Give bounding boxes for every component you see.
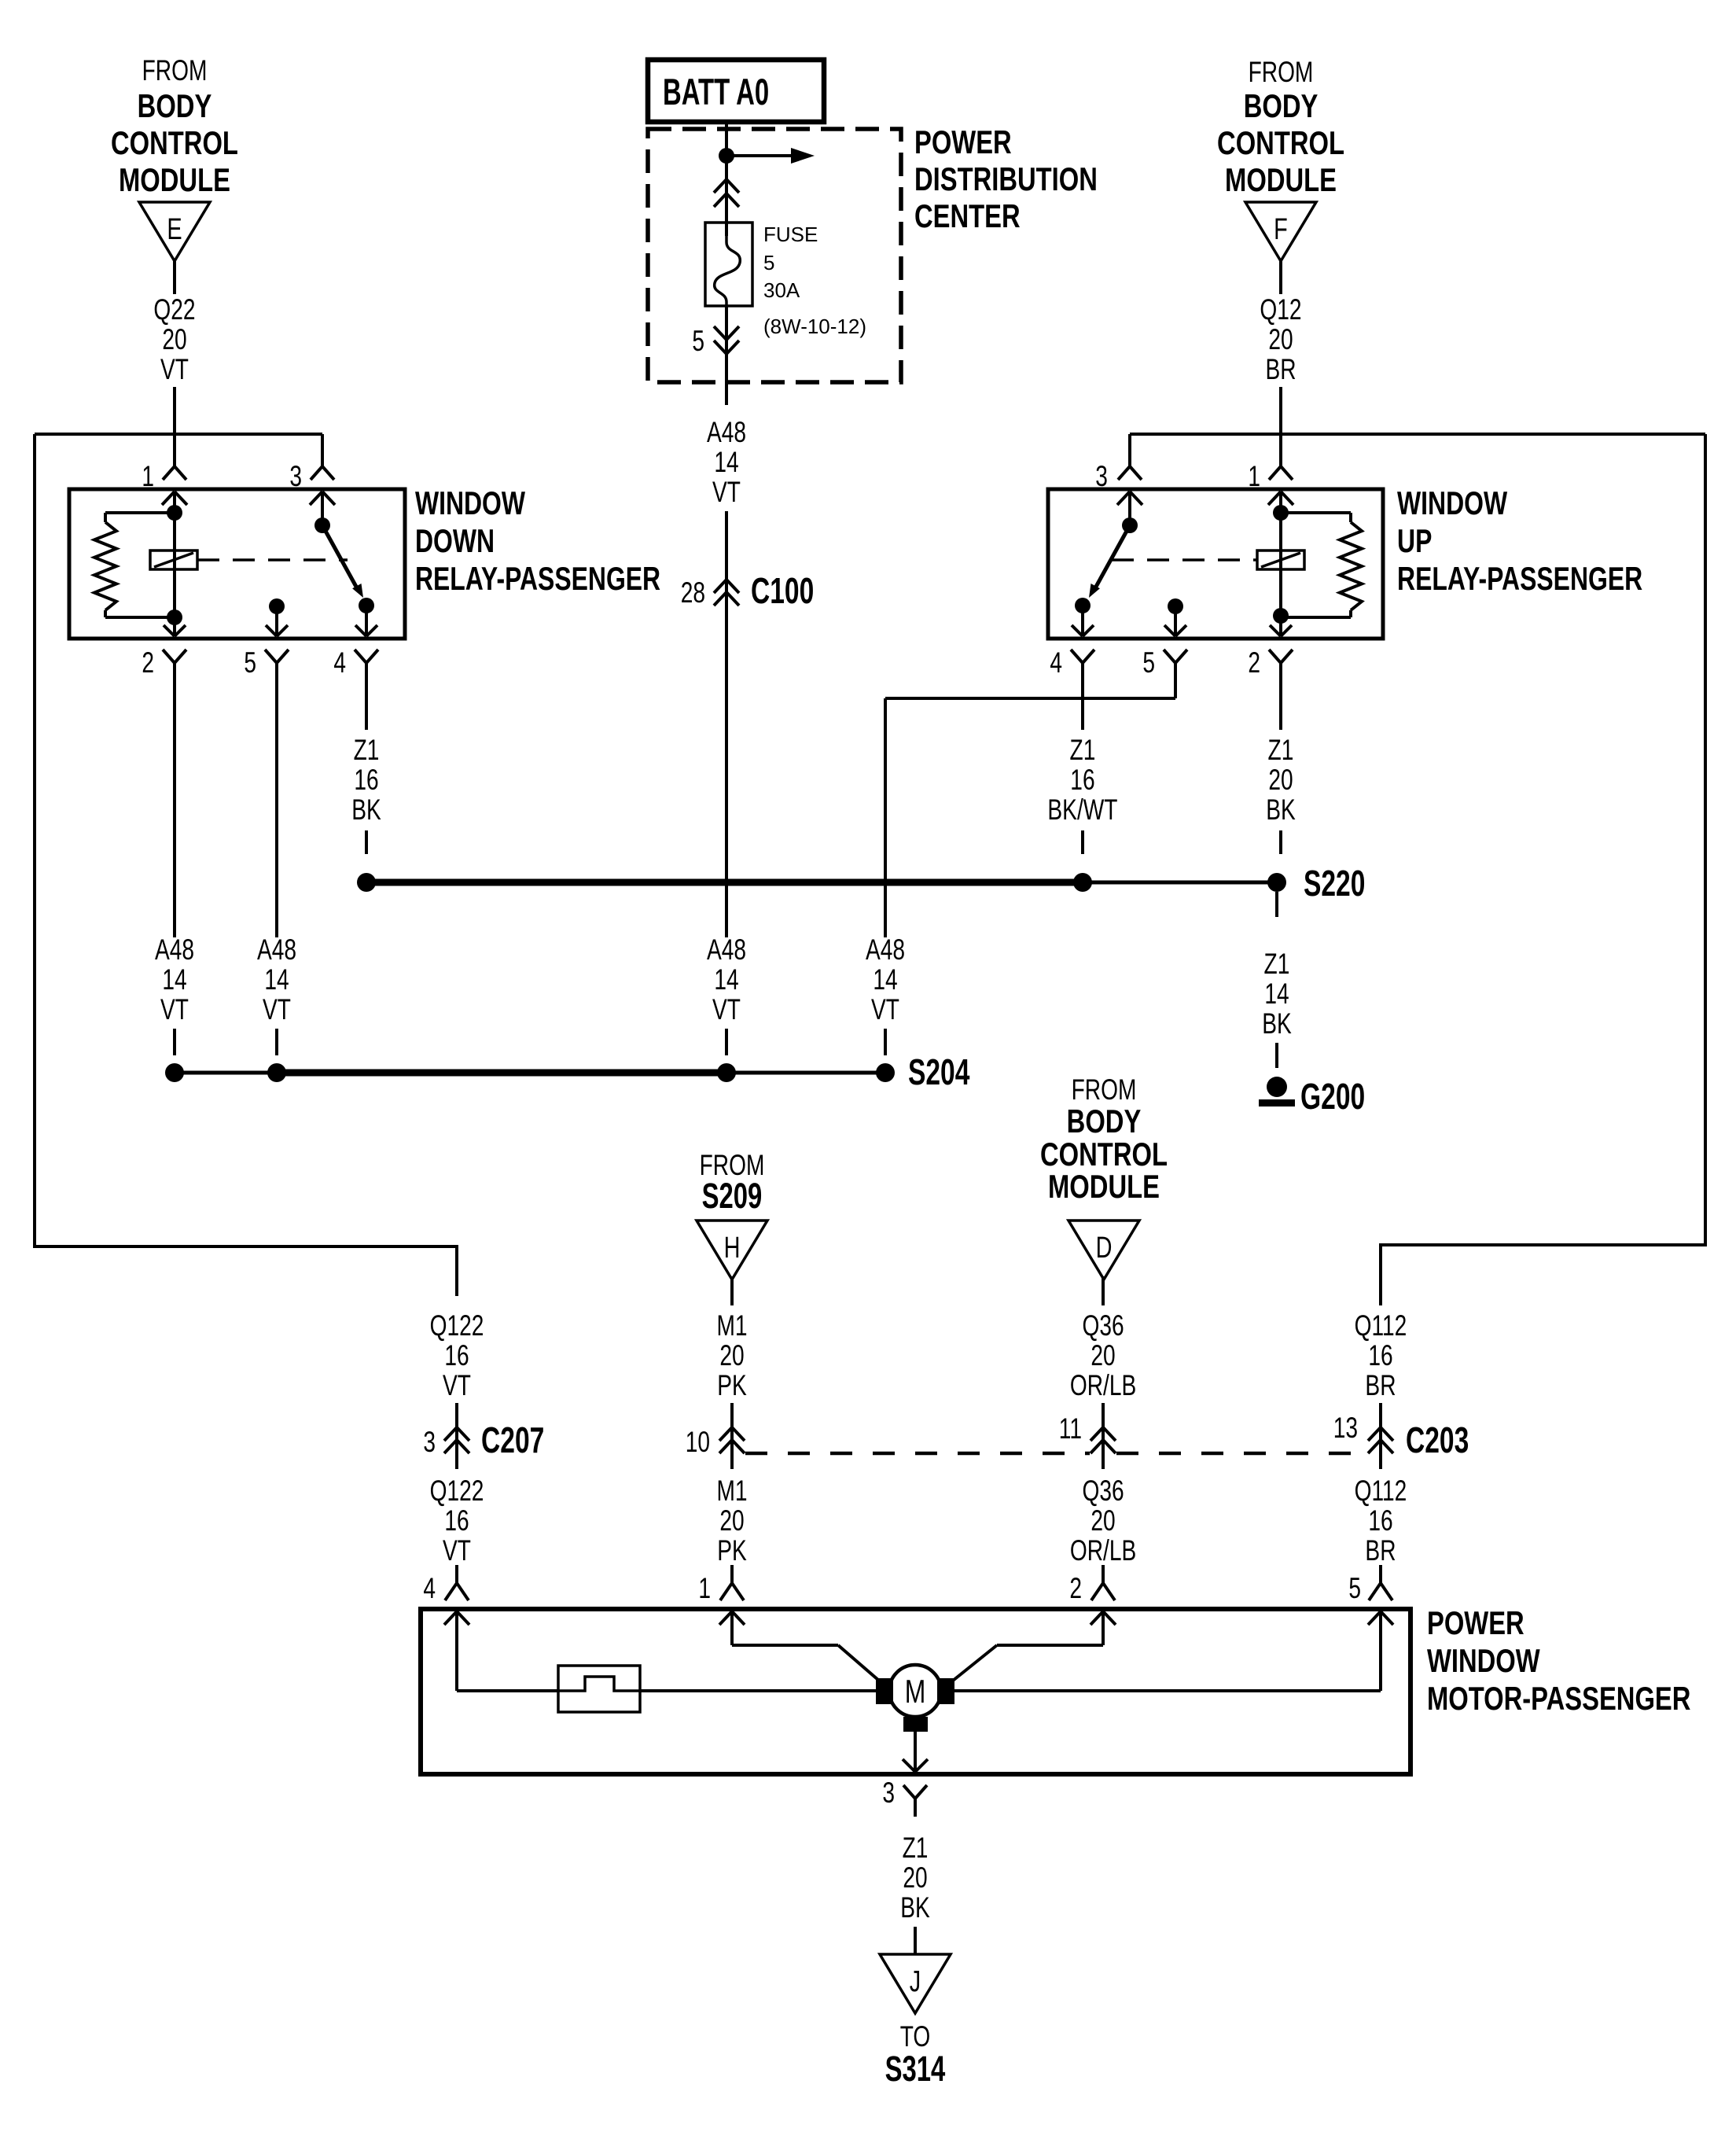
svg-text:BR: BR: [1365, 1534, 1396, 1567]
svg-text:5: 5: [1348, 1571, 1361, 1604]
wire A48 14 VT from relay K1 pin 5 to S204: [257, 681, 296, 1055]
svg-text:BK: BK: [900, 1891, 930, 1924]
connector chevrons above fuse: [714, 156, 739, 236]
svg-text:28: 28: [681, 576, 705, 609]
svg-text:Z1: Z1: [354, 733, 380, 766]
wire Q122 16 VT from C207 to motor pin 4: [430, 1460, 484, 1567]
power distribution center dashed box: [648, 123, 1098, 382]
fuse 5 30A: [705, 223, 866, 338]
svg-text:14: 14: [264, 963, 289, 996]
svg-text:Q112: Q112: [1355, 1309, 1407, 1342]
svg-text:BK: BK: [351, 793, 381, 826]
svg-text:BK: BK: [1266, 793, 1296, 826]
connector triangle H from S209: [697, 1148, 767, 1280]
connector triangle J to S314: [880, 1954, 951, 2089]
wire Z1 20 BK from motor to J: [900, 1831, 930, 1954]
svg-text:S314: S314: [885, 2049, 946, 2089]
node pin 2 window-down relay: [142, 646, 186, 681]
wire A48 14 VT from relay K2 pin 5 to S204: [866, 681, 1175, 1055]
svg-text:14: 14: [714, 445, 738, 478]
svg-text:16: 16: [1070, 763, 1094, 796]
connector C203 pin 13: [1333, 1411, 1469, 1468]
svg-text:A48: A48: [866, 933, 905, 966]
wire rail above window-up relay: [1130, 433, 1705, 436]
relay K2 pin 4 internal: [1081, 606, 1084, 636]
wire Z1 16 BK/WT from relay K2 pin 4 to S220: [1047, 681, 1117, 854]
relay K1 pin 5 internal: [266, 598, 288, 636]
connector C207 pin 3: [423, 1420, 544, 1468]
svg-text:5: 5: [1142, 646, 1155, 679]
svg-text:OR/LB: OR/LB: [1070, 1534, 1136, 1567]
PDC output pin 5 chevrons: [692, 306, 739, 362]
dashed actuation link relay K1: [197, 558, 348, 562]
svg-text:VT: VT: [160, 352, 189, 385]
svg-text:Z1: Z1: [1070, 733, 1096, 766]
svg-text:D: D: [1096, 1231, 1113, 1265]
svg-text:A48: A48: [155, 933, 194, 966]
svg-text:TO: TO: [900, 2020, 931, 2053]
svg-text:PK: PK: [717, 1534, 747, 1567]
splice S220 bus: [357, 863, 1365, 904]
svg-text:POWER: POWER: [1427, 1604, 1525, 1641]
svg-text:4: 4: [333, 646, 346, 679]
splice S204 bus: [165, 1052, 970, 1092]
svg-text:13: 13: [1333, 1411, 1358, 1444]
svg-text:BODY: BODY: [138, 87, 212, 124]
svg-text:30A: 30A: [763, 278, 800, 302]
node pin 5 motor: [1348, 1565, 1392, 1604]
arrow tap to other circuits: [726, 148, 815, 164]
svg-text:CONTROL: CONTROL: [1217, 124, 1344, 161]
svg-text:POWER: POWER: [914, 123, 1012, 160]
svg-text:S220: S220: [1304, 863, 1365, 904]
node pin 3 window-down relay: [289, 434, 334, 492]
node pin 1 motor: [698, 1565, 744, 1604]
svg-text:OR/LB: OR/LB: [1070, 1368, 1136, 1401]
svg-text:BR: BR: [1365, 1368, 1396, 1401]
svg-text:14: 14: [162, 963, 186, 996]
wire Q112 16 BR into C203: [1355, 1309, 1407, 1426]
svg-text:Q36: Q36: [1082, 1309, 1124, 1342]
wire Q22 20 VT from E to relay pin 1: [153, 261, 195, 434]
relay K2 WINDOW UP RELAY-PASSENGER box: [1048, 484, 1642, 639]
junction node in PDC: [719, 148, 734, 164]
battery feed BATT A0 box: [648, 60, 824, 122]
connector triangle D from Body Control Module: [1040, 1073, 1168, 1280]
svg-text:Q22: Q22: [153, 293, 195, 326]
svg-text:WINDOW: WINDOW: [1427, 1642, 1540, 1679]
svg-text:5: 5: [763, 251, 774, 274]
svg-text:C203: C203: [1406, 1420, 1469, 1460]
wire M1 20 PK from pin 10 to motor pin 1: [716, 1460, 747, 1567]
svg-text:20: 20: [1268, 322, 1293, 355]
switch contact relay K1 pin3 to pin4: [310, 492, 374, 613]
wire A48 14 VT from relay K1 pin 2 to S204: [155, 681, 194, 1055]
svg-text:5: 5: [244, 646, 256, 679]
svg-text:16: 16: [444, 1504, 469, 1537]
wire Q12 20 BR from F to relay pin 1: [1260, 261, 1301, 434]
wire long left feed down to C207: [35, 434, 457, 1296]
svg-text:RELAY-PASSENGER: RELAY-PASSENGER: [415, 560, 660, 597]
svg-text:20: 20: [903, 1861, 927, 1894]
svg-text:H: H: [724, 1231, 741, 1265]
svg-text:20: 20: [1091, 1504, 1115, 1537]
svg-text:WINDOW: WINDOW: [1397, 484, 1508, 521]
svg-text:BODY: BODY: [1244, 87, 1319, 124]
resistor inside relay K2: [1281, 513, 1362, 617]
svg-text:WINDOW: WINDOW: [415, 484, 526, 521]
relay K2 pin 5 internal: [1164, 598, 1186, 636]
svg-text:MODULE: MODULE: [1225, 161, 1337, 198]
node pin 1 window-up relay: [1248, 434, 1293, 492]
svg-text:VT: VT: [160, 992, 189, 1025]
wire A48 14 VT from PDC to C100: [707, 354, 746, 580]
relay K1 WINDOW DOWN RELAY-PASSENGER box: [69, 484, 660, 639]
svg-text:5: 5: [692, 324, 704, 357]
svg-text:2: 2: [1069, 1571, 1082, 1604]
svg-text:DISTRIBUTION: DISTRIBUTION: [914, 160, 1098, 197]
coil of relay K2: [1257, 550, 1304, 569]
node pin 3 motor: [882, 1776, 927, 1817]
wire Z1 20 BK from relay K2 pin 2 to S220: [1266, 681, 1296, 854]
svg-text:16: 16: [444, 1338, 469, 1372]
wire A48 14 VT from C100 to S204: [707, 613, 746, 1055]
svg-text:16: 16: [1368, 1338, 1392, 1372]
motor ground exit pin 3: [903, 1732, 928, 1772]
node pin 5 window-up relay: [1142, 646, 1187, 681]
connector pin 10 in-line: [686, 1425, 745, 1468]
relay K1 pin 2 internal: [173, 617, 176, 636]
svg-text:MODULE: MODULE: [1048, 1168, 1160, 1205]
svg-text:A48: A48: [707, 933, 746, 966]
svg-text:3: 3: [423, 1425, 436, 1458]
node pin 4 window-up relay: [1050, 646, 1094, 681]
svg-text:Q36: Q36: [1082, 1474, 1124, 1507]
svg-text:Z1: Z1: [903, 1831, 929, 1864]
svg-text:VT: VT: [443, 1534, 471, 1567]
svg-text:Q122: Q122: [430, 1474, 484, 1507]
connector triangle E from Body Control Module: [111, 53, 238, 261]
svg-text:CONTROL: CONTROL: [111, 124, 238, 161]
svg-text:S204: S204: [908, 1052, 970, 1092]
node pin 3 window-up relay: [1095, 434, 1142, 492]
svg-text:20: 20: [719, 1504, 744, 1537]
svg-text:RELAY-PASSENGER: RELAY-PASSENGER: [1397, 560, 1642, 597]
svg-text:BODY: BODY: [1067, 1103, 1142, 1140]
wire Q122 16 VT into C207: [430, 1309, 484, 1426]
svg-text:4: 4: [423, 1571, 436, 1604]
node pin 4 window-down relay: [333, 646, 378, 681]
svg-text:DOWN: DOWN: [415, 522, 495, 559]
svg-text:UP: UP: [1397, 522, 1432, 559]
circuit breaker inside motor: [558, 1666, 876, 1712]
svg-text:J: J: [910, 1964, 921, 1998]
svg-text:20: 20: [1268, 763, 1293, 796]
node pin 2 window-up relay: [1248, 646, 1293, 681]
svg-text:S209: S209: [702, 1176, 763, 1216]
svg-text:20: 20: [1091, 1338, 1115, 1372]
svg-text:FROM: FROM: [1249, 55, 1314, 88]
svg-text:14: 14: [1264, 977, 1289, 1010]
svg-text:BK/WT: BK/WT: [1047, 793, 1117, 826]
wire M1 20 PK from H to C207 row: [716, 1276, 747, 1426]
svg-text:F: F: [1274, 212, 1288, 246]
motor internal wire from pin 5: [954, 1611, 1393, 1691]
connector C100 pin 28: [681, 571, 815, 620]
svg-text:VT: VT: [712, 475, 741, 508]
motor internal wire from pin 1: [719, 1611, 879, 1681]
relay K1 pin 4 internal: [365, 606, 368, 636]
svg-text:MODULE: MODULE: [119, 161, 230, 198]
wire from BATT A0 into PDC: [725, 122, 728, 156]
svg-text:FROM: FROM: [142, 53, 208, 87]
connector triangle F from Body Control Module: [1217, 55, 1344, 261]
svg-text:14: 14: [714, 963, 738, 996]
wire Z1 14 BK from S220 to G200: [1262, 892, 1292, 1068]
wire long right feed down to C203: [1381, 434, 1705, 1305]
svg-text:M: M: [905, 1673, 926, 1710]
relay K2 coil branch pin1-pin2: [1268, 492, 1293, 624]
svg-text:Q12: Q12: [1260, 293, 1301, 326]
relay K2 pin 2 internal: [1279, 616, 1282, 636]
svg-text:E: E: [167, 212, 182, 246]
relay K1 coil branch pin1-pin2: [162, 492, 187, 625]
svg-text:VT: VT: [712, 992, 741, 1025]
svg-text:14: 14: [873, 963, 897, 996]
svg-text:VT: VT: [871, 992, 899, 1025]
motor M armature: [876, 1665, 954, 1732]
svg-text:11: 11: [1059, 1412, 1082, 1445]
svg-text:G200: G200: [1300, 1077, 1365, 1117]
resistor inside relay K1: [94, 513, 175, 617]
svg-text:Z1: Z1: [1268, 733, 1294, 766]
svg-text:Z1: Z1: [1264, 947, 1290, 980]
svg-text:3: 3: [882, 1776, 895, 1809]
svg-text:4: 4: [1050, 646, 1062, 679]
svg-text:FUSE: FUSE: [763, 223, 818, 246]
switch contact relay K2 pin3 to pin4: [1075, 492, 1142, 613]
wire Z1 16 BK from relay K1 pin 4 to S220: [351, 681, 381, 854]
connector pin 11 in-line: [1059, 1412, 1116, 1468]
svg-text:2: 2: [142, 646, 154, 679]
node pin 2 motor: [1069, 1565, 1115, 1604]
dashed in-line connector row 11-13: [1116, 1452, 1367, 1456]
svg-text:MOTOR-PASSENGER: MOTOR-PASSENGER: [1427, 1680, 1690, 1717]
svg-text:BATT A0: BATT A0: [663, 71, 769, 112]
dashed in-line connector row 10-11: [745, 1452, 1090, 1456]
svg-text:Q122: Q122: [430, 1309, 484, 1342]
ground G200: [1259, 1077, 1365, 1117]
svg-text:20: 20: [162, 322, 186, 355]
svg-text:VT: VT: [263, 992, 291, 1025]
svg-text:CONTROL: CONTROL: [1040, 1136, 1168, 1173]
svg-text:C100: C100: [751, 571, 814, 611]
motor internal wire from pin 4 to circuit breaker: [444, 1611, 558, 1691]
svg-text:CENTER: CENTER: [914, 197, 1021, 234]
wire Q112 16 BR from C203 to motor pin 5: [1355, 1460, 1407, 1567]
node pin 4 motor: [423, 1565, 469, 1604]
node pin 5 window-down relay: [244, 646, 289, 681]
svg-text:2: 2: [1248, 646, 1260, 679]
svg-text:A48: A48: [707, 415, 746, 448]
svg-text:10: 10: [686, 1425, 710, 1458]
svg-text:M1: M1: [716, 1309, 747, 1342]
dashed actuation link relay K2: [1112, 558, 1257, 562]
svg-text:C207: C207: [481, 1420, 544, 1460]
svg-text:Q112: Q112: [1355, 1474, 1407, 1507]
wire rail above window-down relay: [35, 433, 322, 436]
svg-text:BK: BK: [1262, 1007, 1292, 1040]
svg-text:VT: VT: [443, 1368, 471, 1401]
coil of relay K1: [150, 550, 197, 569]
wire Q36 20 OR/LB from D to pin 11: [1070, 1276, 1136, 1426]
svg-text:BR: BR: [1265, 352, 1296, 385]
svg-text:(8W-10-12): (8W-10-12): [763, 315, 866, 338]
node pin 1 window-down relay: [142, 434, 186, 492]
wire Q36 20 OR/LB from pin 11 to motor pin 2: [1070, 1460, 1136, 1567]
svg-text:16: 16: [354, 763, 378, 796]
svg-text:A48: A48: [257, 933, 296, 966]
motor M1 POWER WINDOW MOTOR-PASSENGER box: [421, 1604, 1690, 1774]
svg-text:M1: M1: [716, 1474, 747, 1507]
svg-text:16: 16: [1368, 1504, 1392, 1537]
svg-text:FROM: FROM: [1072, 1073, 1137, 1106]
svg-text:PK: PK: [717, 1368, 747, 1401]
svg-text:1: 1: [698, 1571, 711, 1604]
motor internal wire from pin 2: [953, 1611, 1116, 1681]
svg-text:20: 20: [719, 1338, 744, 1372]
